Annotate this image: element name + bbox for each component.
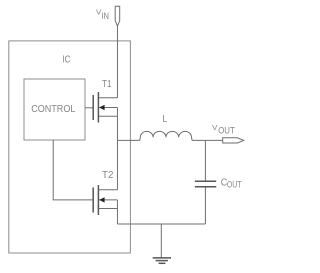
wire T2 source to bottom rail [116, 200, 118, 224]
svg-text:IN: IN [101, 11, 109, 21]
wire CONTROL to T1 gate [85, 107, 93, 109]
ground bar 3 [159, 262, 166, 264]
CONTROL block box [24, 79, 85, 140]
svg-text:OUT: OUT [218, 125, 235, 135]
transistor T1 channel bar [97, 92, 99, 123]
svg-text:T1: T1 [102, 79, 112, 90]
port VOUT pin symbol [223, 138, 244, 143]
svg-text:T2: T2 [102, 170, 114, 181]
transistor T1 gate bar [92, 95, 94, 120]
svg-text:OUT: OUT [227, 180, 242, 190]
transistor T1 source lead [98, 115, 117, 117]
transistor T1 drain lead [98, 97, 117, 99]
wire rail to ground [160, 224, 162, 258]
transistor T2 channel bar [97, 185, 99, 215]
wire inductor to VOUT [192, 139, 223, 141]
bottom rail wire [117, 223, 205, 225]
IC outline box [9, 41, 131, 253]
ground bar 2 [156, 260, 168, 262]
capacitor COUT bottom plate [195, 186, 216, 188]
wire VIN to T1 drain [116, 26, 118, 98]
transistor T1 body arrow [99, 105, 104, 110]
svg-text:IC: IC [62, 55, 70, 66]
ground bar 1 [153, 257, 171, 259]
wire switch node to inductor [117, 139, 139, 141]
transistor T2 body lead [98, 199, 117, 201]
transistor T1 body lead [98, 107, 117, 109]
svg-text:L: L [162, 114, 167, 125]
transistor T2 drain lead [98, 189, 117, 191]
wire T1 source to T2 drain (switch node) [116, 108, 118, 190]
inductor L [140, 131, 192, 140]
port VIN pin symbol [115, 6, 120, 26]
svg-text:CONTROL: CONTROL [31, 104, 75, 115]
transistor T2 gate bar [92, 188, 94, 213]
transistor T2 source lead [98, 208, 117, 210]
wire output node down to capacitor [204, 140, 206, 181]
wire capacitor to bottom rail [204, 187, 206, 224]
wire CONTROL to T2 gate [53, 140, 93, 200]
transistor T2 body arrow [99, 197, 104, 202]
capacitor COUT top plate [195, 180, 216, 182]
